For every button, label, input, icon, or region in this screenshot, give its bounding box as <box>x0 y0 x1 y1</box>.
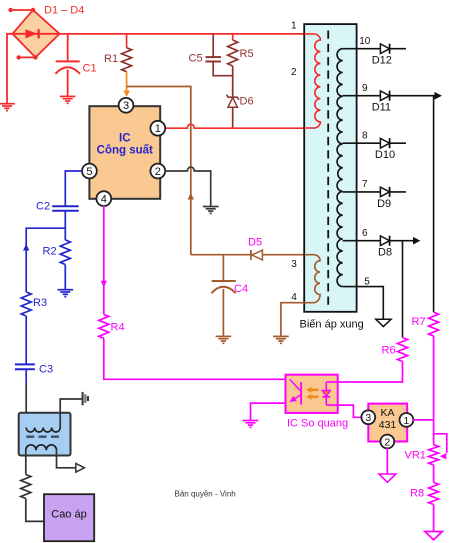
diode D11 <box>380 91 389 101</box>
wire resistor to Cao ap box <box>26 499 44 522</box>
opto phototransistor <box>290 379 302 404</box>
wire top-right lead to chassis ground <box>60 399 82 428</box>
resistor R1 <box>122 34 132 97</box>
tap wire pin 9 <box>343 95 439 97</box>
secondary winding (bottom) <box>26 445 57 450</box>
wire box to resistor <box>25 450 27 474</box>
wire C3 down to line transformer <box>25 384 27 428</box>
wire main top rail <box>60 33 305 35</box>
wire pin4 to ground <box>281 303 305 337</box>
svg-text:Biến áp xung: Biến áp xung <box>300 319 364 331</box>
diode D9 <box>380 187 389 197</box>
opto light arrows <box>306 387 318 400</box>
svg-text:KA: KA <box>380 407 394 419</box>
ground (brown, under C4) <box>216 335 232 337</box>
svg-text:Công suất: Công suất <box>97 145 153 157</box>
svg-text:D11: D11 <box>372 102 391 114</box>
svg-text:D1 – D4: D1 – D4 <box>44 5 84 17</box>
wire R4 to optocoupler collector <box>104 338 286 379</box>
chassis ground (right-pointing) <box>83 392 88 405</box>
wire bridge left to ground <box>7 34 13 104</box>
svg-text:2: 2 <box>155 166 161 178</box>
KA431 pin 2 <box>380 435 394 449</box>
svg-text:5: 5 <box>86 166 92 178</box>
svg-text:C4: C4 <box>234 283 248 295</box>
zener diode D6 <box>227 95 239 129</box>
ground arrow (open, bottom right) <box>425 532 442 540</box>
svg-text:R8: R8 <box>410 488 424 500</box>
pin 1 <box>150 121 165 136</box>
ground (blue, under R2) <box>58 289 74 291</box>
wire KA431 pin2 down <box>386 448 388 474</box>
capacitor C4 <box>211 255 235 337</box>
ground (red, under C1) <box>60 95 76 97</box>
wire brown R1 junction to vertical <box>127 87 191 255</box>
svg-text:R3: R3 <box>33 297 47 309</box>
svg-text:4: 4 <box>101 194 107 206</box>
tap wire pin 10 <box>343 48 406 50</box>
svg-text:C5: C5 <box>189 53 203 65</box>
wire branch to R3 <box>26 228 65 292</box>
resistor R6 <box>398 338 408 362</box>
wire brown horizontal to transformer pin 3 <box>191 254 305 256</box>
pin 3 <box>119 98 134 113</box>
svg-text:8: 8 <box>362 131 368 142</box>
aux winding pins 3-4 (brown) <box>305 255 321 303</box>
wire R8 down <box>433 505 435 532</box>
wire VR1 to R8 <box>433 465 435 483</box>
AC input stub top <box>8 8 35 12</box>
capacitor C5 <box>206 34 233 76</box>
svg-text:Bản quyền - Vinh: Bản quyền - Vinh <box>175 490 236 499</box>
ground arrow (open, KA431 pin2) <box>379 474 396 482</box>
line transformer box <box>19 413 71 456</box>
svg-text:6: 6 <box>362 228 368 239</box>
resistor R5 <box>228 34 238 97</box>
svg-text:D8: D8 <box>378 247 392 259</box>
svg-text:10: 10 <box>359 36 371 47</box>
op-amp U1: IC Cong suat block <box>89 106 160 199</box>
capacitor C3 <box>15 364 35 384</box>
ground (magenta, opto) <box>243 420 259 422</box>
tap wire pin 7 <box>343 191 406 193</box>
svg-text:R1: R1 <box>104 53 118 65</box>
svg-text:R5: R5 <box>240 48 254 60</box>
svg-text:3: 3 <box>291 259 297 270</box>
KA431 pin 1 <box>400 413 414 427</box>
wire D8 branch down to R6 <box>402 241 404 338</box>
svg-text:D5: D5 <box>248 237 262 249</box>
arrow up on brown wire <box>188 193 194 200</box>
svg-text:D9: D9 <box>377 198 391 210</box>
svg-text:3: 3 <box>123 100 129 112</box>
svg-text:9: 9 <box>362 83 368 94</box>
svg-text:2: 2 <box>384 436 390 448</box>
svg-text:1: 1 <box>291 21 297 32</box>
Cao ap block <box>44 494 94 541</box>
diode D12 <box>380 44 389 54</box>
arrow down on pin4 wire <box>101 281 107 288</box>
resistor R7 <box>429 312 439 336</box>
svg-text:R6: R6 <box>382 345 396 357</box>
arrow up on R3 branch <box>23 244 29 251</box>
svg-text:5: 5 <box>364 277 370 288</box>
opto LED <box>322 382 337 405</box>
resistor (black, unlabeled) <box>21 475 31 499</box>
AC input stub bottom <box>17 55 38 59</box>
svg-text:7: 7 <box>362 179 368 190</box>
wire IC pin5 to C2 <box>65 171 82 206</box>
svg-text:4: 4 <box>291 292 297 303</box>
svg-text:IC So quang: IC So quang <box>287 418 348 430</box>
optocoupler U2: IC So quang <box>286 375 338 413</box>
wire R3 to C3 <box>25 316 27 364</box>
diode D5 <box>251 250 263 260</box>
svg-text:1: 1 <box>155 123 161 135</box>
ground arrow (open triangle, pin5) <box>376 319 391 326</box>
tap wire pin 8 <box>343 142 406 144</box>
svg-text:Cao áp: Cao áp <box>51 509 86 521</box>
ground (red, left) <box>0 103 15 105</box>
pin 5 <box>82 164 97 179</box>
svg-text:D6: D6 <box>240 96 254 108</box>
output arrow (open, right) <box>76 464 85 473</box>
output arrow after D11 <box>435 92 442 100</box>
wire IC pin4 down <box>103 206 105 315</box>
primary winding pins 1-2 (red) <box>304 34 320 128</box>
svg-text:431: 431 <box>379 419 397 431</box>
svg-text:D12: D12 <box>372 55 392 67</box>
wire R6 down to opto LED anode <box>338 362 403 383</box>
svg-text:VR1: VR1 <box>405 450 426 462</box>
tap wire pin 6 <box>343 240 414 242</box>
wire IC pin2 to ground <box>165 167 211 207</box>
pin 4 <box>96 191 111 206</box>
primary winding (top) <box>26 428 60 432</box>
resistor R3 <box>21 292 31 316</box>
svg-text:D10: D10 <box>375 149 395 161</box>
wire opto emitter to ground <box>251 403 286 420</box>
diode D10 <box>380 138 389 148</box>
svg-text:1: 1 <box>403 415 409 427</box>
core dashes <box>26 436 60 438</box>
ground (gray, pin2) <box>203 206 219 208</box>
wire KA431 pin1 to VR1 line <box>413 419 434 421</box>
svg-text:3: 3 <box>365 412 371 424</box>
wire bottom-right lead to output arrow <box>57 450 76 468</box>
potentiometer VR1 <box>429 434 447 465</box>
wire opto LED cathode to KA431 pin3 <box>338 405 362 417</box>
KA431 pin 3 <box>361 410 375 424</box>
bridge rectifier D1-D4 <box>13 10 60 57</box>
wire D11 branch down to R7 <box>433 96 435 313</box>
svg-text:2: 2 <box>291 67 297 78</box>
svg-text:C1: C1 <box>83 63 97 75</box>
secondary winding (black) <box>337 49 343 287</box>
output arrow after D8 <box>413 237 420 245</box>
svg-text:R7: R7 <box>412 316 426 328</box>
resistor R8 <box>429 483 439 505</box>
wire R7 down to VR1 <box>433 336 435 445</box>
wire IC pin1 to transformer pin2 <box>165 124 305 128</box>
svg-text:C2: C2 <box>36 201 50 213</box>
tap wire pin 5 <box>343 287 384 320</box>
svg-text:IC: IC <box>119 133 131 145</box>
shunt regulator KA431 <box>368 404 407 442</box>
pulse transformer box <box>304 24 356 312</box>
pin 2 <box>150 164 165 179</box>
capacitor C1 <box>55 34 80 97</box>
resistor R2 <box>60 240 70 290</box>
transformer core dashes <box>327 31 329 308</box>
svg-text:C3: C3 <box>39 364 53 376</box>
resistor R4 <box>99 314 109 338</box>
capacitor C2 <box>52 206 78 240</box>
svg-text:R4: R4 <box>111 322 125 334</box>
diode D8 <box>380 236 389 246</box>
svg-text:R2: R2 <box>43 246 57 258</box>
ground (brown, pin4) <box>273 335 289 337</box>
